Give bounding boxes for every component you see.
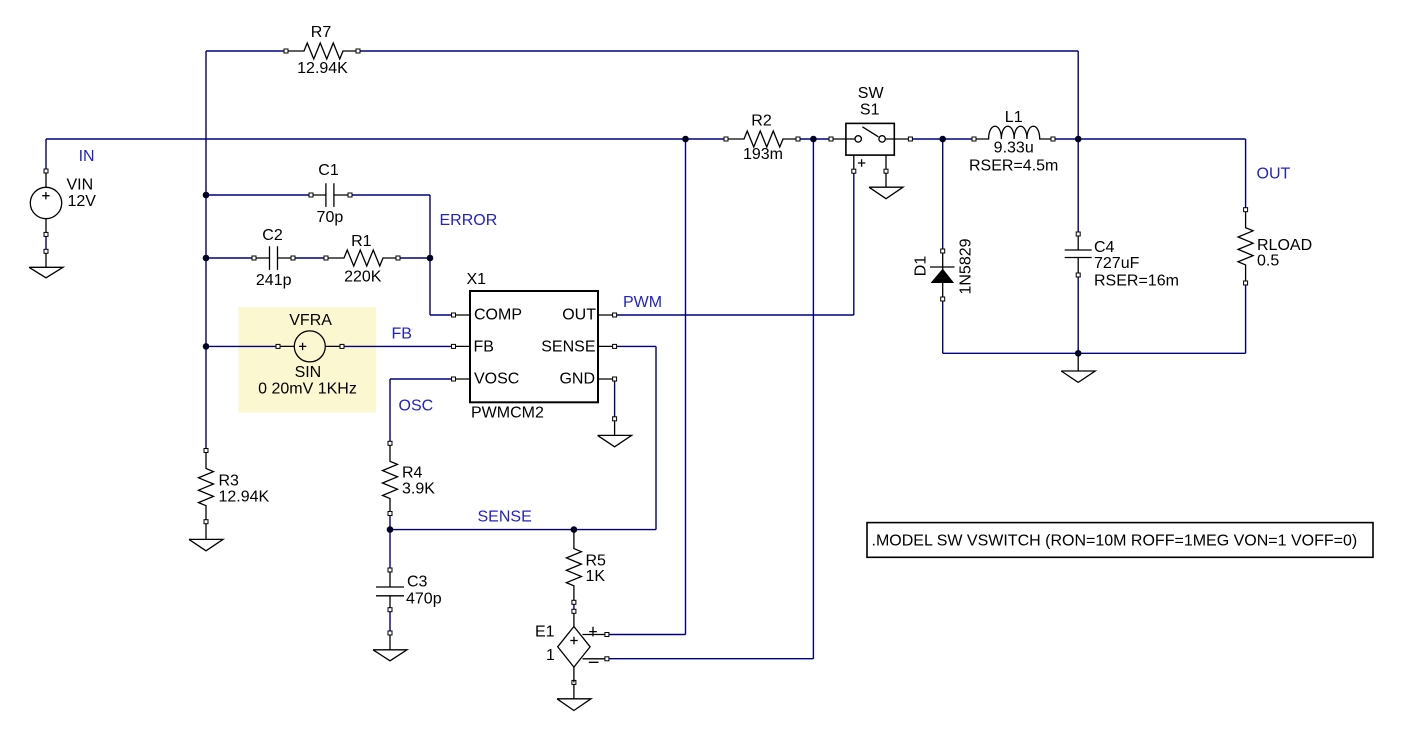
svg-text:R1: R1 (351, 233, 372, 250)
node PWM (623, 294, 662, 311)
svg-text:OUT: OUT (562, 307, 596, 324)
capacitor C2 241p (252, 227, 295, 289)
svg-text:9.33u: 9.33u (994, 140, 1034, 157)
junction IN rail / E1 minus (810, 136, 817, 143)
svg-text:R4: R4 (402, 465, 423, 482)
resistor R1 220K (324, 233, 400, 286)
wire left feedback rail vertical (205, 51, 207, 451)
junction SENSE / R4-C3 (387, 526, 394, 533)
junction bottom rail / ground (1075, 350, 1082, 357)
svg-text:OUT: OUT (1257, 166, 1291, 183)
svg-text:COMP: COMP (474, 307, 522, 324)
highlight box around VFRA (239, 307, 377, 413)
subcircuit X1 PWMCM2 (452, 271, 617, 422)
svg-text:470p: 470p (406, 591, 442, 608)
resistor R7 12.94K (284, 24, 360, 77)
svg-text:L1: L1 (1005, 109, 1023, 126)
svg-text:R7: R7 (311, 24, 332, 41)
wire VIN to ground (45, 234, 47, 251)
wire VOSC pin to OSC vertical (390, 378, 454, 380)
svg-text:R2: R2 (751, 113, 772, 130)
svg-text:D1: D1 (913, 256, 930, 277)
svg-text:3.9K: 3.9K (402, 481, 435, 498)
svg-text:SENSE: SENSE (541, 338, 595, 355)
ground below VIN (29, 249, 63, 277)
svg-text:193m: 193m (743, 146, 783, 163)
resistor R2 193m (724, 113, 800, 164)
junction ERROR vertical / C2 row (427, 255, 434, 262)
svg-text:12.94K: 12.94K (297, 60, 348, 77)
svg-text:727uF: 727uF (1094, 255, 1140, 272)
svg-text:SW: SW (858, 85, 885, 102)
wire D1 top (942, 139, 944, 251)
svg-text:220K: 220K (344, 269, 382, 286)
node SENSE (478, 509, 532, 526)
wire E1 minus output horizontal (607, 658, 814, 660)
svg-text:1: 1 (546, 647, 555, 664)
svg-text:PWM: PWM (623, 294, 662, 311)
ground below X1 GND pin (598, 417, 632, 447)
svg-text:R5: R5 (586, 552, 607, 569)
capacitor C1 70p (309, 162, 352, 226)
node ERROR (440, 212, 498, 229)
wire SENSE row horizontal (390, 529, 656, 531)
wire R4 to C3 (389, 514, 391, 571)
wire PWM from OUT pin (615, 314, 854, 316)
svg-text:C1: C1 (318, 162, 339, 179)
wire VIN top lead (45, 139, 47, 171)
wire SENSE to SENSE pin (615, 345, 656, 347)
svg-text:RSER=4.5m: RSER=4.5m (969, 158, 1058, 175)
svg-text:VIN: VIN (67, 176, 94, 193)
wire OUT right vertical to RLOAD (1245, 139, 1247, 210)
wire OSC vertical to R4 (389, 379, 391, 443)
svg-text:IN: IN (79, 148, 95, 165)
svg-text:FB: FB (474, 338, 494, 355)
svg-text:0 20mV 1KHz: 0 20mV 1KHz (258, 381, 357, 398)
svg-text:RSER=16m: RSER=16m (1094, 273, 1179, 290)
wire to COMP pin (430, 314, 454, 316)
svg-text:0.5: 0.5 (1257, 253, 1279, 270)
resistor R5 1K (566, 530, 606, 605)
junction SENSE / R5 (571, 526, 578, 533)
svg-text:ERROR: ERROR (440, 212, 498, 229)
svg-text:RLOAD: RLOAD (1257, 237, 1312, 254)
resistor R4 3.9K (383, 441, 436, 515)
wire GND pin down (614, 379, 616, 419)
ground below R3 (189, 524, 223, 551)
junction IN rail / E1 plus (682, 136, 689, 143)
svg-text:70p: 70p (317, 209, 344, 226)
svg-text:X1: X1 (467, 271, 487, 288)
svg-text:SENSE: SENSE (478, 509, 532, 526)
svg-text:1N5829: 1N5829 (958, 238, 975, 294)
svg-text:12.94K: 12.94K (219, 489, 270, 506)
diode D1 1N5829 (913, 238, 975, 301)
wire E1 plus vertical to IN rail (685, 139, 687, 635)
wire C2 row left (206, 257, 254, 259)
wire S1 to L1 (910, 138, 974, 140)
wire C4 bottom (1077, 275, 1079, 353)
node IN (79, 148, 95, 165)
svg-text:VOSC: VOSC (474, 370, 519, 387)
controlled source E1 (535, 609, 609, 682)
svg-text:R3: R3 (219, 473, 240, 490)
svg-text:241p: 241p (256, 272, 292, 289)
svg-text:VFRA: VFRA (289, 312, 332, 329)
wire C4 top (1077, 139, 1079, 234)
wire R1 to ERROR vertical (398, 257, 430, 259)
wire bottom output rail (943, 352, 1246, 354)
wire E1 minus vertical to R2-S1 node (812, 139, 814, 659)
switch S1 SW (829, 85, 912, 173)
svg-text:C4: C4 (1094, 239, 1115, 256)
svg-text:S1: S1 (860, 101, 880, 118)
wire PWM vertical to S1 control (853, 171, 855, 315)
svg-text:FB: FB (392, 326, 412, 343)
svg-text:12V: 12V (68, 193, 97, 210)
wire C3 to ground (389, 610, 391, 633)
ground below output rail (1061, 353, 1095, 382)
voltage source VIN 12V (30, 169, 96, 236)
capacitor C4 727uF (1065, 232, 1179, 290)
wire L1 to OUT corner (1053, 138, 1246, 140)
wire top rail right of R7 (358, 50, 1078, 52)
wire SENSE vertical (655, 346, 657, 529)
svg-text:C2: C2 (262, 227, 283, 244)
wire IN rail from VIN to R2 (46, 138, 726, 140)
ground below S1 (869, 173, 903, 199)
capacitor C3 470p (376, 568, 442, 612)
wire FB row left (206, 345, 278, 347)
node OUT (1257, 166, 1291, 183)
ground below E1 (557, 680, 591, 710)
svg-text:1K: 1K (586, 568, 606, 585)
svg-text:PWMCM2: PWMCM2 (471, 405, 544, 422)
svg-text:OSC: OSC (399, 398, 434, 415)
text box .MODEL statement (867, 523, 1373, 558)
junction switch output / D1 (939, 136, 946, 143)
wire C2 to R1 (293, 257, 326, 259)
wire top rail left of R7 (206, 50, 286, 52)
inductor L1 9.33u (969, 109, 1058, 175)
svg-text:E1: E1 (535, 624, 555, 641)
wire top-right vertical down to OUT node (1077, 51, 1079, 139)
junction left rail / C2 row (203, 255, 210, 262)
junction left rail / C1 row (203, 192, 210, 199)
svg-text:.MODEL SW VSWITCH (RON=10M ROF: .MODEL SW VSWITCH (RON=10M ROFF=1MEG VON… (872, 533, 1358, 550)
svg-text:C3: C3 (407, 574, 428, 591)
svg-text:SIN: SIN (295, 364, 322, 381)
wire E1 plus output horizontal (607, 634, 686, 636)
node OSC (399, 398, 434, 415)
resistor R3 12.94K (199, 449, 270, 524)
wire D1 bottom (942, 299, 944, 353)
wire R5 to E1 (573, 602, 575, 611)
node FB (392, 326, 412, 343)
wire ERROR vertical (429, 195, 431, 315)
junction left rail / FB row (203, 343, 210, 350)
wire C1 row left (206, 194, 311, 196)
voltage source VFRA SIN (258, 312, 357, 398)
wire RLOAD bottom (1245, 283, 1247, 353)
wire R2 to S1 (798, 138, 831, 140)
ground below C3 (373, 631, 407, 661)
svg-text:GND: GND (559, 370, 595, 387)
wire C1 row right (350, 194, 430, 196)
junction OUT node top (1075, 136, 1082, 143)
resistor RLOAD 0.5 (1238, 208, 1312, 285)
wire VFRA to FB pin (342, 345, 454, 347)
